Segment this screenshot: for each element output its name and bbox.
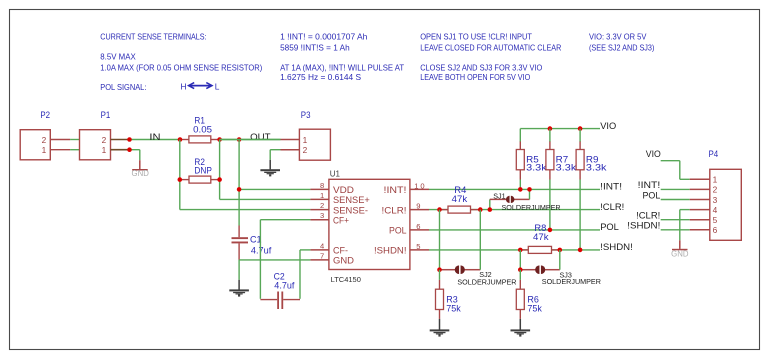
svg-text:LEAVE BOTH OPEN FOR 5V VIO: LEAVE BOTH OPEN FOR 5V VIO bbox=[420, 72, 531, 82]
annotation notes column 3 bbox=[420, 32, 561, 82]
U1 right pin stubs bbox=[410, 189, 429, 250]
junction !SHDN! at R9 bbox=[578, 248, 583, 253]
wire net !INT! bbox=[429, 188, 600, 190]
svg-text:SJ1: SJ1 bbox=[493, 192, 505, 201]
svg-text:P4: P4 bbox=[709, 149, 719, 159]
junction POL at R7 bbox=[548, 228, 553, 233]
junction VIO at R7 bbox=[548, 126, 553, 131]
svg-text:2: 2 bbox=[102, 135, 107, 145]
wire net IN bbox=[130, 139, 181, 141]
svg-text:GND: GND bbox=[333, 256, 354, 267]
wire net !CLR! bbox=[429, 209, 600, 211]
wire OUT to VDD and C1 bbox=[239, 140, 310, 226]
wire CF+ to C2 left bbox=[260, 220, 310, 299]
wire POL to P4 pin 3 bbox=[661, 199, 690, 201]
wire P2 to P1 pin rows bbox=[50, 140, 79, 150]
earth ground under P3 bbox=[260, 160, 280, 177]
svg-text:4.7uf: 4.7uf bbox=[251, 246, 272, 256]
P3 pin numbers 1,2 bbox=[303, 135, 308, 155]
junction !INT! at R5 bbox=[518, 187, 523, 192]
svg-text:CURRENT SENSE TERMINALS:: CURRENT SENSE TERMINALS: bbox=[100, 32, 206, 42]
resistor R9 with leads bbox=[576, 129, 584, 250]
svg-text:4: 4 bbox=[713, 205, 718, 215]
capacitor C1 bbox=[232, 226, 249, 260]
connector P2 bbox=[20, 110, 50, 160]
junction at P1 pin 1 bbox=[127, 147, 132, 152]
svg-text:1: 1 bbox=[320, 191, 324, 200]
svg-text:47k: 47k bbox=[452, 194, 468, 204]
connector P1 bbox=[80, 110, 111, 160]
svg-text:POL: POL bbox=[389, 226, 407, 237]
junction !SHDN! at R8 left bbox=[518, 248, 523, 253]
svg-text:VIO: VIO bbox=[600, 120, 616, 131]
capacitor C2 bbox=[260, 292, 300, 310]
svg-text:(SEE SJ2 AND SJ3): (SEE SJ2 AND SJ3) bbox=[589, 42, 655, 52]
resistor R2 bbox=[180, 176, 220, 183]
svg-text:SOLDERJUMPER: SOLDERJUMPER bbox=[502, 203, 561, 212]
svg-text:POL: POL bbox=[600, 221, 619, 232]
resistor R7 with leads bbox=[546, 129, 554, 230]
svg-text:1: 1 bbox=[102, 145, 107, 155]
svg-text:P3: P3 bbox=[301, 110, 311, 120]
svg-text:VIO: 3.3V OR 5V: VIO: 3.3V OR 5V bbox=[589, 32, 647, 42]
svg-text:CLOSE SJ2 AND SJ3 FOR 3.3V VIO: CLOSE SJ2 AND SJ3 FOR 3.3V VIO bbox=[420, 62, 543, 72]
resistor R8 bbox=[519, 246, 561, 253]
svg-text:!CLR!: !CLR! bbox=[382, 205, 407, 216]
wire GND net C1 to U1 pin 7 bbox=[239, 260, 310, 280]
svg-text:POL: POL bbox=[643, 189, 661, 200]
svg-text:H: H bbox=[181, 82, 187, 92]
svg-text:10: 10 bbox=[414, 182, 426, 191]
svg-text:LTC4150: LTC4150 bbox=[331, 275, 361, 284]
junction IN at P1 pin 2 bbox=[127, 137, 132, 142]
svg-text:!SHDN!: !SHDN! bbox=[627, 220, 660, 231]
junction IN at R1 left bbox=[178, 137, 183, 142]
connector P3 bbox=[299, 110, 330, 160]
svg-text:3: 3 bbox=[320, 211, 324, 220]
svg-text:2: 2 bbox=[303, 145, 308, 155]
svg-text:8.5V MAX: 8.5V MAX bbox=[100, 51, 136, 61]
junction !SHDN! at R8 right bbox=[558, 248, 563, 253]
svg-text:CF+: CF+ bbox=[333, 215, 349, 226]
wire OUT to P3 pin 1 bbox=[220, 139, 281, 141]
svg-text:U1: U1 bbox=[330, 169, 341, 178]
svg-text:OPEN SJ1 TO USE !CLR! INPUT: OPEN SJ1 TO USE !CLR! INPUT bbox=[420, 32, 532, 42]
svg-text:8: 8 bbox=[320, 181, 324, 190]
solder jumper SJ1 bbox=[490, 189, 530, 209]
svg-text:IN: IN bbox=[149, 131, 160, 142]
connector P4 bbox=[709, 149, 742, 240]
svg-text:6: 6 bbox=[416, 222, 422, 231]
svg-text:!SHDN!: !SHDN! bbox=[374, 246, 407, 257]
svg-text:2: 2 bbox=[42, 135, 47, 145]
wire GND to P4 pin 4 bbox=[680, 210, 690, 241]
junction !INT! at SJ1 bbox=[527, 187, 532, 192]
annotation notes column 4 bbox=[589, 32, 655, 53]
svg-text:3.3k: 3.3k bbox=[556, 163, 577, 173]
junction R2 right bbox=[217, 177, 222, 182]
svg-text:1: 1 bbox=[42, 145, 47, 155]
resistor R1 bbox=[180, 136, 220, 143]
svg-text:4.7uf: 4.7uf bbox=[274, 280, 295, 290]
svg-text:1: 1 bbox=[303, 135, 308, 145]
resistor R6 with leads bbox=[516, 270, 524, 319]
P4 pin stubs bbox=[690, 179, 710, 230]
POL signal H-L double arrow bbox=[189, 83, 213, 89]
svg-text:DNP: DNP bbox=[194, 166, 212, 176]
svg-text:7: 7 bbox=[320, 251, 324, 260]
wire net OUT bbox=[220, 139, 281, 141]
wire P3 pin 2 to earth ground bbox=[270, 150, 280, 160]
svg-text:75k: 75k bbox=[446, 303, 461, 313]
resistor R3 with leads bbox=[436, 270, 444, 319]
svg-text:!SHDN!: !SHDN! bbox=[600, 241, 633, 252]
wire net !SHDN! bbox=[429, 249, 600, 251]
svg-text:4: 4 bbox=[320, 241, 324, 250]
svg-text:GND: GND bbox=[671, 249, 689, 258]
svg-text:AT 1A (MAX), !INT! WILL PULSE: AT 1A (MAX), !INT! WILL PULSE AT bbox=[280, 62, 404, 72]
U1 left pin stubs bbox=[310, 189, 329, 260]
svg-text:POL SIGNAL:: POL SIGNAL: bbox=[100, 82, 146, 92]
U1 pin names bbox=[333, 185, 407, 267]
svg-text:6: 6 bbox=[713, 225, 718, 235]
wire P1 pin 1 to GND bbox=[130, 150, 140, 161]
solder jumper SJ3 bbox=[520, 250, 560, 274]
wire !SHDN! to P4 pin 6 bbox=[661, 229, 690, 231]
svg-text:5: 5 bbox=[713, 215, 718, 225]
earth ground under R3 bbox=[430, 319, 450, 337]
op-amp U1 LTC4150 body bbox=[329, 179, 410, 269]
ground symbol GND at P4 bbox=[671, 240, 689, 258]
resistor R5 with leads bbox=[516, 129, 524, 190]
wire net VIO top bbox=[520, 128, 600, 130]
annotation notes column 1 bbox=[100, 32, 262, 92]
svg-text:75k: 75k bbox=[527, 303, 542, 313]
svg-text:P2: P2 bbox=[40, 110, 50, 120]
P1 pin numbers 2,1 bbox=[102, 135, 107, 155]
junction OUT at VDD tap bbox=[237, 137, 242, 142]
svg-text:L: L bbox=[215, 82, 220, 92]
svg-text:5859 !INT!S = 1 Ah: 5859 !INT!S = 1 Ah bbox=[280, 42, 350, 52]
svg-text:!CLR!: !CLR! bbox=[600, 201, 624, 212]
svg-text:!INT!: !INT! bbox=[384, 185, 407, 196]
svg-text:9: 9 bbox=[416, 202, 422, 211]
svg-text:GND: GND bbox=[132, 169, 150, 178]
svg-text:1.0A MAX (FOR 0.05 OHM SENSE R: 1.0A MAX (FOR 0.05 OHM SENSE RESISTOR) bbox=[100, 62, 262, 72]
svg-text:3: 3 bbox=[713, 195, 718, 205]
svg-text:3.3k: 3.3k bbox=[586, 163, 607, 173]
svg-text:3.3k: 3.3k bbox=[526, 163, 547, 173]
junction VDD tap bbox=[237, 187, 242, 192]
wire !CLR! to P4 pin 5 bbox=[661, 219, 690, 221]
U1 pin numbers bbox=[320, 181, 427, 260]
junction SJ3 left bbox=[518, 267, 523, 272]
wire CF- to C2 right bbox=[300, 250, 310, 299]
svg-text:5: 5 bbox=[416, 242, 422, 251]
earth ground under C1 bbox=[229, 280, 249, 297]
svg-text:SOLDERJUMPER: SOLDERJUMPER bbox=[542, 277, 601, 286]
P1 pin stubs bbox=[111, 140, 130, 150]
svg-text:47k: 47k bbox=[533, 232, 549, 242]
earth ground under R6 bbox=[511, 319, 531, 337]
annotation notes column 2 bbox=[280, 32, 404, 82]
svg-text:VIO: VIO bbox=[646, 148, 661, 159]
junction R2 left bbox=[178, 177, 183, 182]
junction !CLR! at SJ1 bbox=[488, 207, 493, 212]
ground symbol GND near P1 bbox=[132, 160, 150, 178]
svg-text:1 !INT! = 0.0001707 Ah: 1 !INT! = 0.0001707 Ah bbox=[280, 32, 368, 42]
junction VIO at R9 bbox=[578, 126, 583, 131]
svg-text:2: 2 bbox=[320, 201, 324, 210]
svg-text:!INT!: !INT! bbox=[600, 181, 622, 192]
wire !INT! to P4 pin 2 bbox=[661, 188, 690, 190]
resistor R4 bbox=[440, 206, 481, 213]
wire IN-side vertical to SENSE- bbox=[180, 140, 311, 210]
P3 pin stubs bbox=[281, 140, 300, 150]
junction SJ2 left bbox=[437, 267, 442, 272]
solder jumper SJ2 bbox=[440, 210, 481, 274]
junction !CLR! at R4 left bbox=[437, 207, 442, 212]
svg-text:0.05: 0.05 bbox=[193, 124, 212, 134]
wire VIO to P4 pin 1 bbox=[661, 161, 690, 180]
junction OUT at R1 right bbox=[217, 137, 222, 142]
junction !CLR! at R4 right bbox=[478, 207, 483, 212]
wire net POL bbox=[429, 229, 600, 231]
P2 pin numbers 2,1 bbox=[42, 135, 47, 155]
svg-text:1.6275 Hz = 0.6144 S: 1.6275 Hz = 0.6144 S bbox=[280, 72, 361, 82]
svg-text:2: 2 bbox=[713, 185, 718, 195]
svg-text:LEAVE CLOSED FOR AUTOMATIC CLE: LEAVE CLOSED FOR AUTOMATIC CLEAR bbox=[420, 42, 561, 52]
wire OUT-side vertical to SENSE+ bbox=[220, 140, 311, 200]
svg-text:SOLDERJUMPER: SOLDERJUMPER bbox=[457, 278, 516, 287]
svg-text:1: 1 bbox=[713, 175, 718, 185]
svg-text:P1: P1 bbox=[101, 110, 111, 120]
P4 pin numbers 1-6 bbox=[713, 175, 718, 236]
